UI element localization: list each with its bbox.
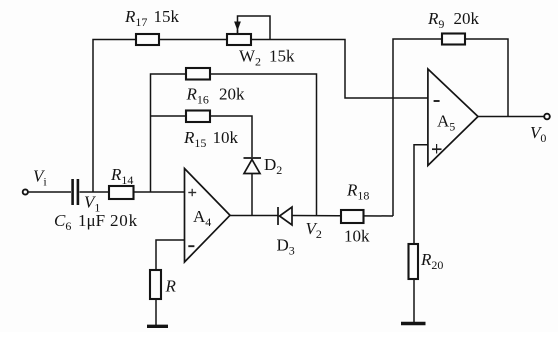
svg-text:R: R <box>165 277 177 296</box>
svg-text:10k: 10k <box>213 128 239 147</box>
svg-text:1μF: 1μF <box>78 211 105 230</box>
svg-text:15k: 15k <box>154 7 180 26</box>
svg-text:15k: 15k <box>269 46 295 65</box>
svg-text:20k: 20k <box>454 9 480 28</box>
svg-text:20k: 20k <box>219 84 245 103</box>
svg-text:10k: 10k <box>344 226 370 245</box>
svg-text:20k: 20k <box>110 211 138 230</box>
